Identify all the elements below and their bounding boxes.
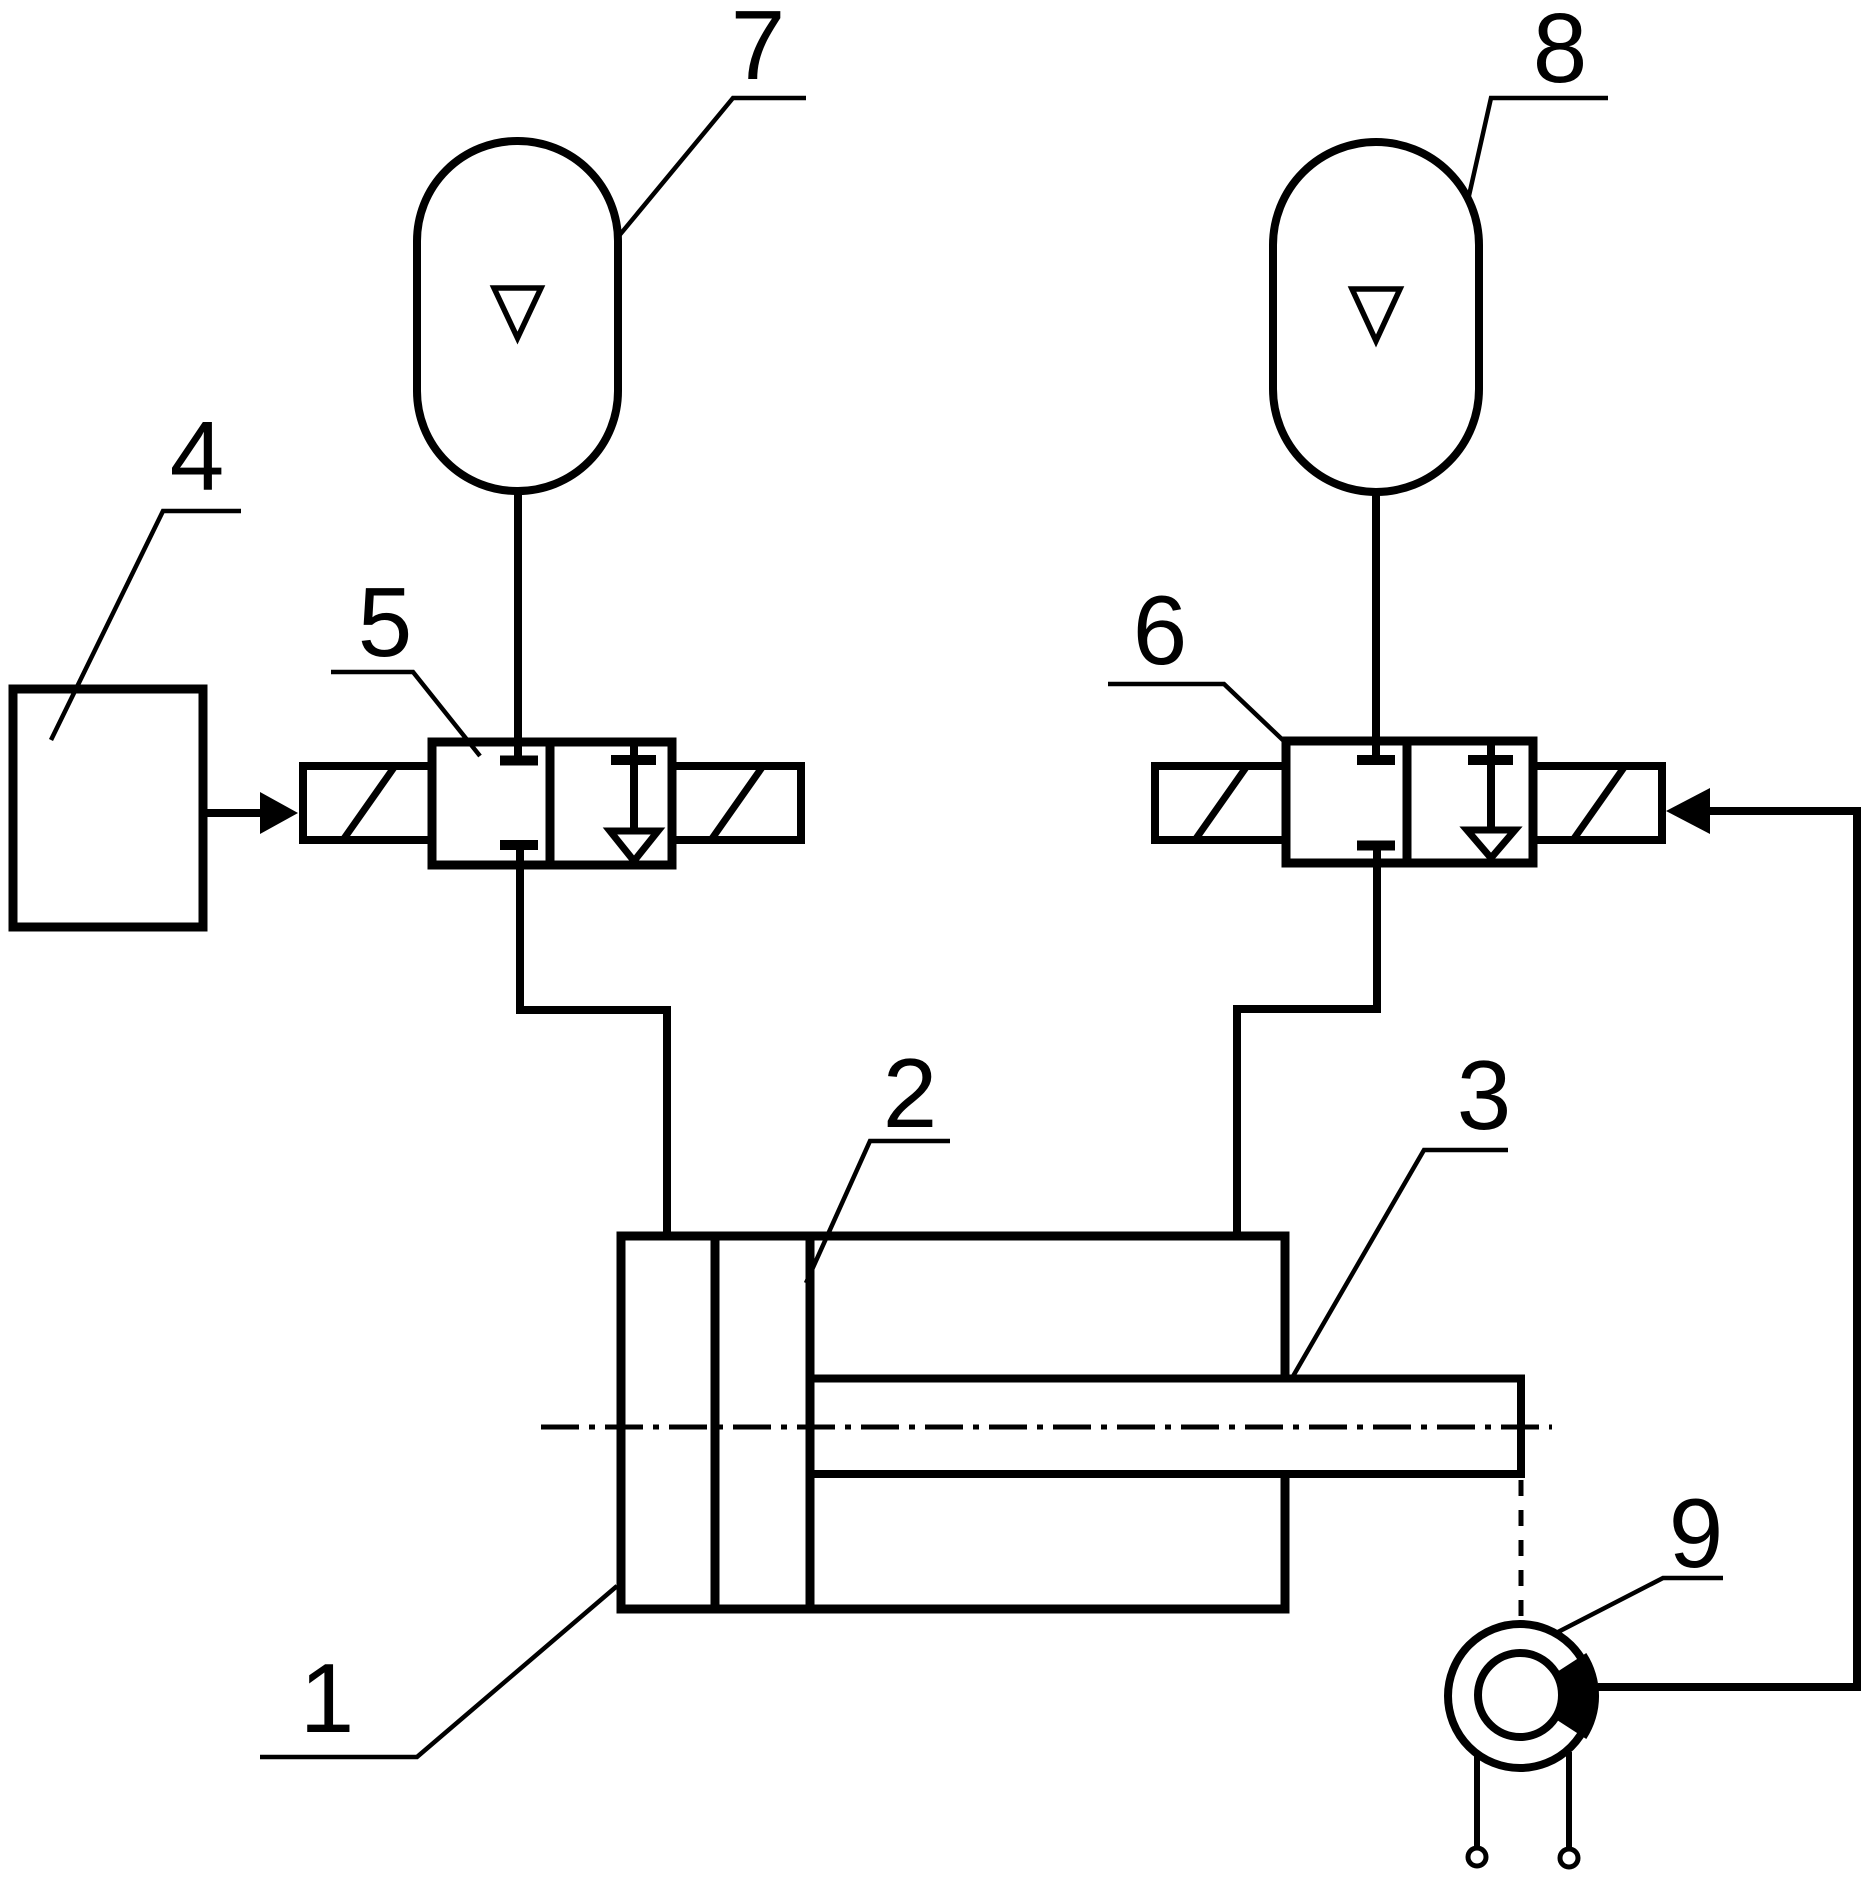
- leader line 3: [1292, 1150, 1508, 1378]
- valve 5 flow path with arrow (right position): [610, 742, 658, 861]
- sensor 9 terminal left: [1468, 1848, 1486, 1866]
- arrowhead into valve 6 solenoid: [1666, 788, 1710, 834]
- sensor 9 filled sector: [1554, 1653, 1600, 1739]
- arrowhead into valve 5 solenoid: [260, 792, 298, 834]
- leader line 5: [331, 672, 480, 756]
- svg-text:7: 7: [731, 0, 786, 100]
- accumulator 8: [1273, 142, 1479, 492]
- svg-text:1: 1: [300, 1643, 355, 1753]
- wire: valve 5 bottom port to cylinder left chamber: [520, 849, 667, 1232]
- piston rod 3: [810, 1379, 1521, 1475]
- feedback wire: sensor 9 to valve 6 right solenoid: [1598, 811, 1857, 1687]
- piston 2 (two faces): [711, 1236, 720, 1609]
- leader line 8: [1468, 98, 1608, 200]
- valve 6 blocked port bars (left position): [1357, 760, 1395, 846]
- valve 5 right solenoid coil: [672, 766, 801, 840]
- cylinder 1 barrel: [621, 1236, 1285, 1609]
- valve 6 flow path with arrow (right position): [1467, 741, 1515, 858]
- svg-text:5: 5: [358, 567, 413, 677]
- sensor 9 terminal right: [1560, 1849, 1578, 1867]
- valve 5 body (2-position): [432, 742, 672, 865]
- control unit 4: [13, 689, 203, 927]
- leader line 4: [51, 511, 241, 740]
- leader line 9: [1558, 1578, 1723, 1632]
- svg-text:4: 4: [170, 401, 225, 511]
- wire: accumulator 8 to valve 6 top port: [1372, 492, 1380, 757]
- valve 5 left solenoid coil: [303, 766, 432, 840]
- valve 6 right solenoid coil: [1533, 766, 1662, 840]
- valve 5 blocked port bars (left position): [500, 761, 538, 846]
- valve 6 body (2-position): [1286, 741, 1533, 863]
- leader line 7: [618, 98, 806, 237]
- accumulator 7: [417, 141, 618, 491]
- axis center line: [541, 1425, 1552, 1430]
- svg-text:8: 8: [1533, 0, 1588, 103]
- sensor 9 terminal wire left: [1474, 1753, 1480, 1846]
- leader line 1: [260, 1586, 617, 1757]
- wire: control unit 4 to valve 5 left solenoid: [203, 809, 264, 817]
- wire: accumulator 7 to valve 5 top port: [514, 491, 522, 757]
- svg-text:3: 3: [1457, 1040, 1512, 1150]
- svg-text:9: 9: [1669, 1478, 1724, 1588]
- leader line 6: [1108, 684, 1287, 744]
- valve 6 left solenoid coil: [1155, 766, 1286, 840]
- dashed link: rod 3 to sensor 9: [1519, 1480, 1524, 1622]
- svg-text:2: 2: [883, 1038, 938, 1148]
- svg-text:6: 6: [1133, 575, 1188, 685]
- position sensor 9: [1448, 1624, 1592, 1768]
- wire: valve 6 bottom port to cylinder right chamber: [1237, 849, 1377, 1232]
- sensor 9 terminal wire right: [1566, 1752, 1572, 1847]
- leader line 2: [806, 1141, 950, 1283]
